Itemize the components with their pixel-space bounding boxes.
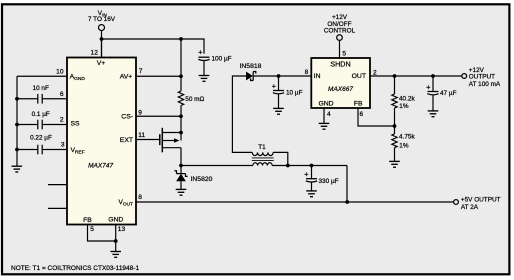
wire GND pin 13	[115, 225, 117, 252]
svg-text:V+: V+	[97, 60, 106, 67]
svg-text:T1: T1	[258, 144, 266, 151]
svg-text:OUT: OUT	[352, 73, 366, 80]
wire IN5820 anode to ground	[180, 181, 182, 189]
wire V+ rail to resistor	[180, 39, 182, 91]
IC U2 MAX667	[311, 58, 370, 108]
svg-text:IN: IN	[314, 73, 321, 80]
svg-text:GND: GND	[108, 216, 123, 223]
wire corner down to 5V line	[346, 166, 348, 203]
svg-text:1%: 1%	[399, 103, 409, 110]
svg-text:+: +	[198, 48, 203, 57]
svg-text:12: 12	[91, 49, 99, 56]
IC U1 MAX747	[67, 58, 136, 225]
svg-text:EXT: EXT	[120, 137, 133, 144]
node AV+	[179, 74, 183, 78]
svg-text:4: 4	[327, 111, 331, 118]
svg-text:50 mΩ: 50 mΩ	[185, 96, 204, 103]
svg-text:7: 7	[139, 68, 143, 75]
node LX	[179, 164, 183, 168]
svg-text:2: 2	[60, 117, 64, 124]
wire SS row	[17, 124, 38, 126]
svg-text:IN5818: IN5818	[240, 63, 262, 70]
ground 47uF	[428, 111, 439, 117]
node 10uF tap	[277, 74, 281, 78]
svg-text:3: 3	[61, 142, 65, 149]
ground left rail	[12, 166, 23, 172]
ground 4.75k	[389, 161, 400, 167]
svg-text:+: +	[304, 170, 309, 179]
capacitor 100 uF polarized	[198, 57, 209, 60]
wire transformer to corner	[272, 165, 347, 167]
node mosfet source tie	[179, 131, 183, 135]
svg-text:10: 10	[56, 69, 64, 76]
capacitor 10 nF	[38, 94, 42, 104]
capacitor 330 uF polarized	[306, 179, 317, 182]
terminal VIN	[99, 25, 105, 31]
wire MAX667 GND pin 4	[323, 108, 325, 123]
wire EXT pin 11	[136, 139, 160, 141]
svg-text:0.22 µF: 0.22 µF	[30, 135, 52, 142]
svg-text:10 µF: 10 µF	[286, 90, 303, 97]
svg-text:MAX747: MAX747	[88, 162, 113, 169]
svg-text:CONTROL: CONTROL	[324, 28, 356, 35]
wire secondary to diode anode	[232, 76, 252, 152]
wire mosfet drain down	[180, 148, 182, 166]
wire 10nF row	[17, 98, 38, 100]
svg-text:FB: FB	[83, 217, 92, 224]
node FB divider	[393, 124, 397, 128]
svg-text:6: 6	[60, 91, 64, 98]
node GND13 join	[114, 239, 118, 243]
wire LX to transformer	[181, 165, 253, 167]
wire OUT pin to +12V terminal	[370, 75, 462, 77]
ground MAX747 GND	[110, 252, 121, 258]
wire CS- pin 9	[136, 115, 181, 117]
svg-text:0.1 µF: 0.1 µF	[32, 111, 50, 118]
svg-text:AT 2A: AT 2A	[461, 204, 479, 211]
svg-text:47 µF: 47 µF	[440, 90, 457, 97]
svg-text:11: 11	[138, 132, 145, 139]
node +5V join	[345, 200, 349, 204]
wire 330uF leads	[311, 166, 313, 179]
node 47uF tap	[431, 74, 435, 78]
wire AGND pin 10	[17, 75, 67, 77]
svg-text:+5V OUTPUT: +5V OUTPUT	[461, 197, 501, 204]
ground MAX667 GND	[319, 123, 330, 129]
svg-text:6: 6	[360, 111, 364, 118]
svg-text:9: 9	[138, 110, 142, 117]
svg-text:5: 5	[342, 50, 346, 57]
wire 4.75k leads	[394, 126, 396, 134]
wire top rail	[102, 39, 205, 54]
svg-text:IN5820: IN5820	[191, 176, 213, 183]
svg-text:100 µF: 100 µF	[212, 56, 232, 63]
svg-text:SHDN: SHDN	[330, 59, 350, 68]
svg-text:+: +	[426, 82, 431, 91]
wire V+ pin 12	[101, 39, 103, 58]
svg-text:MAX667: MAX667	[328, 86, 353, 93]
diode D2 IN5820 schottky	[174, 166, 187, 182]
wire FB pin 5	[88, 225, 116, 242]
svg-text:GND: GND	[318, 100, 333, 107]
svg-text:SS: SS	[71, 120, 81, 127]
node CS-	[179, 114, 183, 118]
terminal +5V output	[454, 200, 459, 205]
node 10nF rail	[15, 97, 19, 101]
node VIN junction	[100, 37, 104, 41]
terminal +12V output	[462, 74, 467, 79]
svg-text:7 TO 16V: 7 TO 16V	[88, 16, 116, 23]
svg-text:CS-: CS-	[121, 114, 133, 121]
wire 100uF lower lead	[203, 61, 205, 76]
wire 10uF leads	[278, 76, 280, 90]
svg-text:OUTPUT: OUTPUT	[469, 74, 495, 81]
capacitor 47 uF polarized	[427, 92, 438, 95]
resistor 4.75k	[392, 134, 397, 148]
node SS rail	[15, 123, 19, 127]
svg-text:4.75k: 4.75k	[399, 134, 415, 141]
svg-text:1%: 1%	[399, 143, 409, 150]
wire VREF row	[17, 149, 38, 151]
wire stub upper left	[48, 184, 67, 186]
ground IN5820	[176, 189, 187, 195]
wire resistor to mosfet	[180, 106, 182, 141]
svg-text:13: 13	[118, 226, 126, 233]
svg-text:40.2k: 40.2k	[399, 96, 415, 103]
svg-text:330 µF: 330 µF	[319, 178, 339, 185]
resistor 40.2k	[392, 94, 397, 108]
svg-text:8: 8	[138, 194, 142, 201]
wire AV+ pin 7	[136, 75, 181, 77]
wire FB pin 6 to divider	[358, 108, 395, 126]
wire stub lower left	[48, 207, 67, 209]
node divider top	[393, 74, 397, 78]
node secondary join	[286, 164, 290, 168]
svg-text:AV+: AV+	[120, 74, 133, 81]
transformer T1	[252, 152, 274, 165]
terminal ON/OFF control	[337, 35, 343, 41]
ground 10uF	[273, 108, 284, 114]
wire 40.2k leads	[394, 76, 396, 94]
svg-text:AT 100 mA: AT 100 mA	[469, 81, 501, 88]
wire +5V output line	[136, 201, 453, 203]
capacitor 0.1 uF	[38, 120, 42, 130]
wire 47uF leads	[432, 76, 434, 91]
svg-text:5: 5	[90, 226, 94, 233]
node V+ rail	[179, 37, 183, 41]
ground 330uF	[306, 191, 317, 197]
svg-text:NOTE: T1 = COILTRONICS CTX03-1: NOTE: T1 = COILTRONICS CTX03-11948-1	[11, 265, 139, 272]
svg-text:FB: FB	[354, 100, 363, 107]
wire diode cathode to IN pin	[254, 75, 311, 77]
diode D1 IN5818 schottky	[246, 72, 255, 81]
svg-text:10 nF: 10 nF	[33, 85, 49, 92]
transistor Q1 p-channel mosfet	[160, 128, 181, 153]
resistor 50 mohm	[178, 91, 183, 106]
wire VIN vertical	[101, 31, 103, 58]
wire left ground rail	[16, 76, 18, 166]
node 330uF tap	[310, 164, 314, 168]
node VREF rail	[15, 148, 19, 152]
svg-text:2: 2	[373, 70, 377, 77]
capacitor 0.22 uF	[38, 145, 42, 155]
ground 100uF	[199, 76, 210, 82]
wire secondary right loop	[273, 152, 288, 165]
svg-text:8: 8	[305, 69, 309, 76]
svg-text:+: +	[272, 81, 277, 90]
wire SHDN pin 5	[339, 41, 341, 58]
capacitor 10 uF polarized	[273, 91, 284, 94]
